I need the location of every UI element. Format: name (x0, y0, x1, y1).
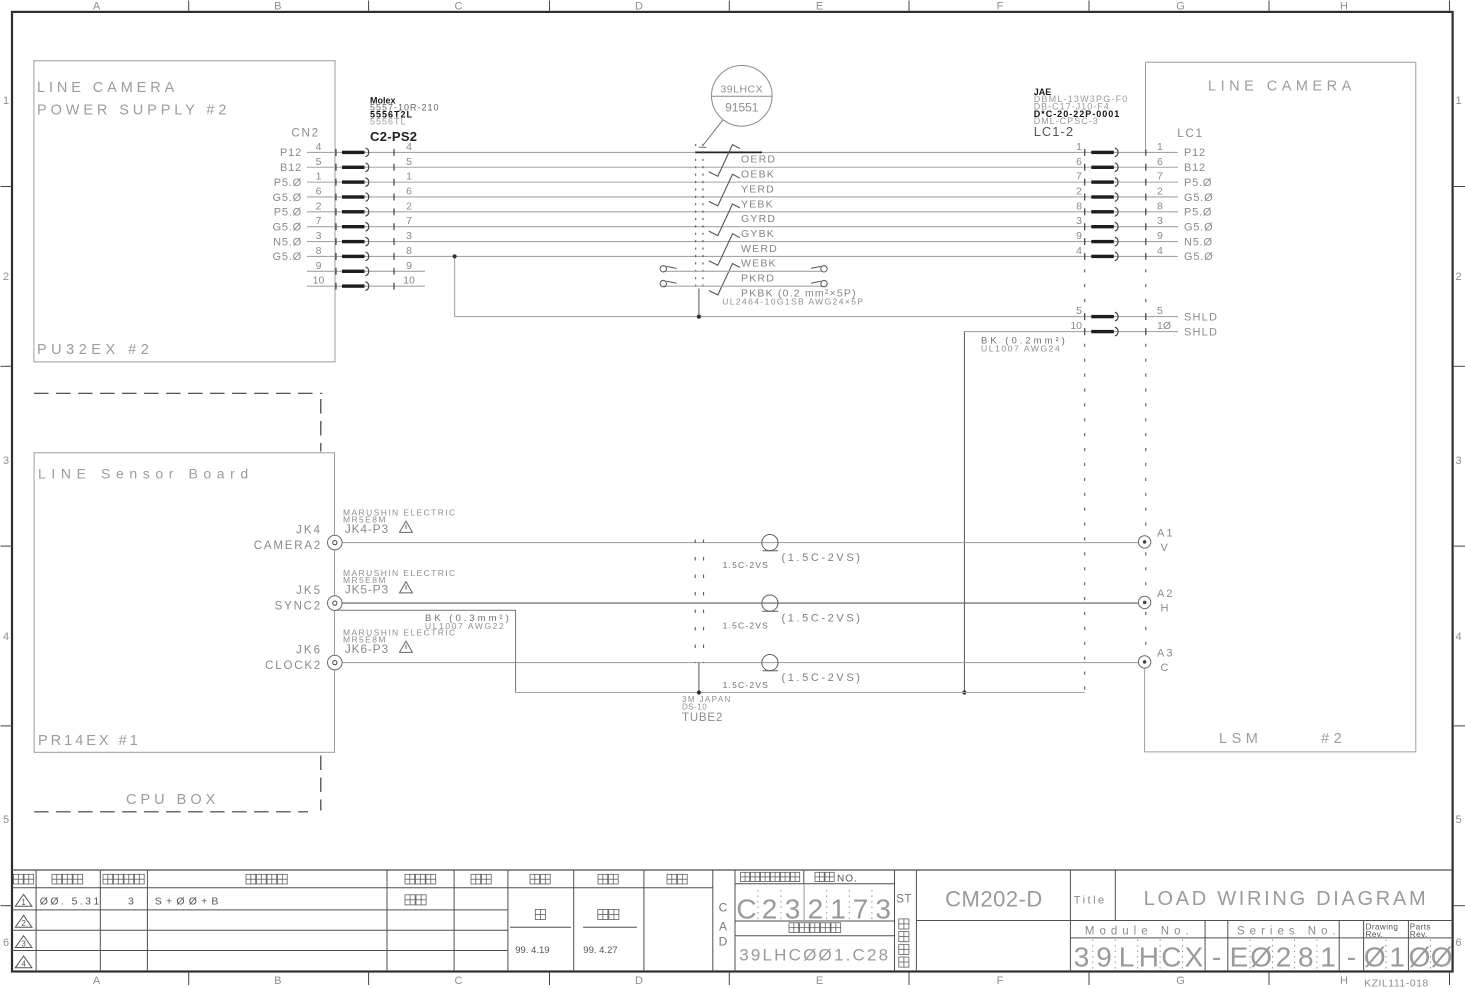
svg-text:PKRD: PKRD (741, 273, 775, 285)
svg-text:8: 8 (1076, 200, 1082, 212)
wire row 7 (CN2 pin 3) (307, 241, 1178, 243)
svg-text:LSM: LSM (1219, 731, 1262, 747)
svg-text:Ø: Ø (1409, 942, 1431, 973)
svg-text:E: E (816, 975, 823, 987)
svg-text:5556TL: 5556TL (370, 116, 407, 126)
svg-text:LINE CAMERA: LINE CAMERA (1208, 79, 1356, 95)
svg-text:A: A (719, 919, 727, 933)
svg-text:3: 3 (1076, 215, 1082, 227)
connector C2-PS2 contact row 9 (335, 268, 337, 275)
svg-text:JK4-P3: JK4-P3 (345, 522, 389, 536)
svg-text:NO.: NO. (837, 874, 858, 885)
svg-text:(1.5C-2VS): (1.5C-2VS) (782, 672, 863, 684)
terminal JK6 CLOCK2 (328, 655, 343, 670)
svg-text:PR14EX #1: PR14EX #1 (38, 733, 141, 749)
svg-text:3: 3 (3, 455, 9, 467)
right cable boundary dashed line (1084, 150, 1086, 693)
svg-text:3: 3 (128, 895, 134, 907)
svg-text:(1.5C-2VS): (1.5C-2VS) (782, 613, 863, 625)
svg-text:P5.Ø: P5.Ø (1184, 207, 1212, 219)
wire row 8 (CN2 pin 8) (307, 255, 1178, 257)
coax cable symbol on CAMERA2 (762, 535, 778, 551)
terminal JK4 CAMERA2 (328, 535, 343, 550)
warning triangle at JK4 (400, 521, 413, 532)
svg-text:2: 2 (21, 919, 26, 928)
connector C2-PS2 contact row 4 (335, 193, 337, 200)
svg-text:F: F (997, 1, 1004, 13)
svg-text:N5.Ø: N5.Ø (1184, 236, 1213, 248)
svg-text:SHLD: SHLD (1184, 326, 1218, 338)
svg-text:7: 7 (406, 215, 412, 227)
wire from CN2 pin 8 down to SHLD (454, 256, 456, 316)
svg-text:1: 1 (406, 171, 412, 183)
svg-text:D: D (719, 935, 728, 949)
svg-text:4: 4 (316, 141, 322, 153)
svg-text:1: 1 (1076, 141, 1082, 153)
svg-text:H: H (1340, 975, 1348, 987)
svg-text:A2: A2 (1157, 588, 1174, 600)
svg-text:UL1007 AWG22: UL1007 AWG22 (425, 621, 505, 631)
svg-text:#2: #2 (1321, 731, 1346, 747)
svg-text:2: 2 (762, 894, 778, 925)
svg-text:10: 10 (313, 275, 325, 287)
balloon leader line (702, 120, 723, 147)
svg-text:3: 3 (21, 939, 26, 948)
svg-text:1Ø: 1Ø (1157, 320, 1171, 332)
LC1-2 / LSM boundary dashed line (1145, 150, 1147, 662)
svg-text:P5.Ø: P5.Ø (274, 177, 302, 189)
svg-text:6: 6 (316, 185, 322, 197)
svg-text:8: 8 (1157, 200, 1163, 212)
svg-text:A: A (93, 1, 101, 13)
svg-text:ST: ST (896, 894, 912, 906)
svg-text:5: 5 (1076, 305, 1082, 317)
svg-text:B12: B12 (280, 162, 302, 174)
SHLD wire row (LC1 pin 5) (455, 316, 1178, 318)
connector LC1-2 contact row 1 (pin 1) (1084, 149, 1086, 156)
shield drain wire to SHLD (698, 289, 700, 317)
svg-text:1.5C-2VS: 1.5C-2VS (723, 620, 769, 630)
svg-text:B12: B12 (1184, 162, 1206, 174)
svg-text:GYBK: GYBK (741, 228, 775, 240)
revision triangles (15, 894, 32, 906)
svg-text:1: 1 (1320, 942, 1336, 973)
BK 0.2mm drain wire from LC1 pin 10 (963, 332, 965, 693)
svg-text:G5.Ø: G5.Ø (273, 222, 303, 234)
svg-text:Ø: Ø (1431, 942, 1453, 973)
svg-text:SYNC2: SYNC2 (275, 600, 322, 612)
svg-text:1: 1 (1455, 95, 1461, 107)
svg-text:C: C (1161, 662, 1169, 674)
connector LC1-2 contact row 6 (pin 3) (1084, 223, 1086, 230)
svg-text:H: H (1161, 603, 1169, 615)
twisted pair symbol rows 1-2 (709, 145, 740, 177)
cable callout balloon 39LHCX / 91551 (712, 66, 773, 127)
svg-text:9: 9 (1076, 230, 1082, 242)
connector LC1-2 contact row 7 (pin 9) (1084, 238, 1086, 245)
unit box LINE CAMERA / LSM #2 (1146, 61, 1416, 63)
svg-text:CAMERA2: CAMERA2 (254, 540, 322, 552)
warning triangle at JK6 (400, 641, 413, 652)
svg-text:Ø: Ø (1250, 942, 1272, 973)
wire row 4 (CN2 pin 6) (307, 196, 1178, 198)
svg-text:5: 5 (1157, 305, 1163, 317)
svg-text:Module No.: Module No. (1085, 926, 1194, 938)
connector C2-PS2 contact row 8 (335, 253, 337, 260)
coax cable symbol on CLOCK2 (762, 655, 778, 671)
svg-text:7: 7 (1157, 171, 1163, 183)
svg-text:1.5C-2VS: 1.5C-2VS (723, 680, 769, 690)
svg-text:DS-10: DS-10 (682, 702, 707, 711)
svg-text:TUBE2: TUBE2 (682, 712, 723, 724)
svg-text:3: 3 (316, 230, 322, 242)
svg-text:1: 1 (830, 894, 846, 925)
connector LC1-2 contact row 2 (pin 6) (1084, 164, 1086, 171)
svg-text:4: 4 (21, 960, 26, 969)
connector C2-PS2 contact row 2 (335, 164, 337, 171)
svg-text:G: G (1176, 975, 1185, 987)
twisted pair symbol rows 3-4 (709, 174, 740, 206)
svg-text:8: 8 (1298, 942, 1314, 973)
svg-text:7: 7 (316, 215, 322, 227)
svg-text:LC1-2: LC1-2 (1034, 124, 1074, 139)
svg-text:WEBK: WEBK (741, 258, 777, 270)
svg-text:1: 1 (3, 95, 9, 107)
connector LC1-2 contact row 5 (pin 8) (1084, 208, 1086, 215)
svg-text:CPU BOX: CPU BOX (126, 792, 219, 808)
svg-text:7: 7 (1076, 171, 1082, 183)
svg-text:Ø: Ø (1364, 942, 1386, 973)
svg-text:1: 1 (1157, 141, 1163, 153)
connector C2-PS2 contact row 5 (335, 208, 337, 215)
svg-text:KZIL111-018: KZIL111-018 (1364, 978, 1429, 988)
svg-text:8: 8 (316, 245, 322, 257)
svg-text:2: 2 (1276, 942, 1292, 973)
SHLD wire row (LC1 pin 10) (964, 331, 1178, 333)
svg-text:39LHCØØ1.C28: 39LHCØØ1.C28 (739, 946, 890, 965)
svg-text:8: 8 (406, 245, 412, 257)
svg-text:9: 9 (1157, 230, 1163, 242)
svg-text:(1.5C-2VS): (1.5C-2VS) (782, 552, 863, 564)
cable boundary dashed lines (UL2464 cable) (695, 144, 697, 290)
bold cable segment on wire row 1 (696, 151, 762, 153)
bukka code / kanri no headers (741, 872, 750, 881)
svg-text:Rev.: Rev. (1366, 930, 1384, 939)
coax cable symbol on SYNC2 (762, 595, 778, 611)
connector LC1-2 contact row 8 (pin 4) (1084, 253, 1086, 260)
connector C2-PS2 contact row 7 (335, 238, 337, 245)
svg-text:5: 5 (406, 156, 412, 168)
svg-text:UL2464-10G1SB AWG24×5P: UL2464-10G1SB AWG24×5P (722, 296, 864, 306)
svg-text:C: C (455, 975, 463, 987)
svg-text:WERD: WERD (741, 243, 778, 255)
svg-text:1: 1 (21, 898, 26, 907)
wire row 10 (CN2 pin 10) (307, 285, 425, 287)
svg-text:Rev.: Rev. (1410, 930, 1428, 939)
svg-text:P12: P12 (1184, 147, 1206, 159)
svg-text:10: 10 (1070, 320, 1082, 332)
svg-text:Series No.: Series No. (1237, 926, 1341, 938)
wire row 1 (CN2 pin 4) (307, 151, 1178, 153)
grid tick marks left/right (1, 186, 13, 188)
svg-text:LINE Sensor Board: LINE Sensor Board (38, 466, 254, 482)
ground bus wire bottom (516, 692, 1085, 694)
svg-text:2: 2 (1076, 185, 1082, 197)
TUBE2 drain to ground bus (698, 663, 700, 693)
wire row 9 (CN2 pin 9) (307, 270, 425, 272)
svg-text:6: 6 (1157, 156, 1163, 168)
svg-text:D: D (635, 1, 643, 13)
designer / checker names (535, 909, 545, 919)
svg-text:1.5C-2VS: 1.5C-2VS (723, 560, 769, 570)
svg-text:G: G (1176, 1, 1185, 13)
unit box LINE CAMERA POWER SUPPLY #2 (PU32EX #2) (34, 61, 335, 362)
svg-text:4: 4 (1157, 245, 1163, 257)
svg-text:CN2: CN2 (291, 128, 319, 140)
coax wire SYNC2 (342, 602, 1138, 604)
svg-text:H: H (1340, 1, 1348, 13)
svg-text:A3: A3 (1157, 648, 1174, 660)
svg-text:4: 4 (1455, 631, 1461, 643)
terminal JK5 SYNC2 (328, 596, 343, 611)
wire row 6 (CN2 pin 7) (307, 226, 1178, 228)
svg-text:99. 4.27: 99. 4.27 (583, 945, 617, 956)
svg-text:B: B (274, 975, 281, 987)
svg-text:GYRD: GYRD (741, 213, 776, 225)
CPU BOX dashed boundary top (34, 392, 322, 394)
svg-text:CM202-D: CM202-D (945, 887, 1043, 912)
svg-text:P12: P12 (280, 147, 302, 159)
warning triangle at JK5 (400, 582, 413, 593)
title block (12, 869, 1453, 871)
svg-text:9: 9 (406, 260, 412, 272)
svg-text:OERD: OERD (741, 154, 776, 166)
svg-text:6: 6 (406, 185, 412, 197)
junction node on row 8 (453, 254, 457, 258)
wire row 2 (CN2 pin 5) (307, 166, 1178, 168)
svg-text:6: 6 (3, 937, 9, 949)
svg-text:2: 2 (406, 200, 412, 212)
svg-text:C: C (736, 894, 756, 925)
svg-text:3: 3 (875, 894, 891, 925)
svg-text:B: B (274, 1, 281, 13)
svg-text:SHLD: SHLD (1184, 311, 1218, 323)
grid tick marks top/bottom (188, 1, 190, 12)
unit box LINE Sensor Board (PR14EX #1) (34, 453, 334, 753)
svg-text:2: 2 (3, 271, 9, 283)
svg-text:2: 2 (1455, 271, 1461, 283)
file name header (789, 923, 799, 933)
svg-text:5: 5 (3, 814, 9, 826)
svg-text:C: C (719, 901, 728, 915)
svg-text:2: 2 (808, 894, 824, 925)
dotted char separators module/series (1092, 940, 1094, 972)
coax wire CAMERA2 (342, 542, 1138, 544)
svg-text:G5.Ø: G5.Ø (1184, 192, 1214, 204)
connector C2-PS2 contact row 6 (335, 223, 337, 230)
svg-text:ØØ. 5.31: ØØ. 5.31 (40, 895, 102, 907)
twisted pair symbol rows 7-8 (709, 234, 740, 265)
coax wire CLOCK2 (342, 662, 1138, 664)
svg-text:X: X (1184, 942, 1203, 973)
terminal A3 (1138, 656, 1150, 668)
svg-text:LC1: LC1 (1177, 128, 1204, 140)
svg-text:-: - (1212, 942, 1221, 973)
title block headers (kanji) (14, 874, 24, 884)
svg-text:OEBK: OEBK (741, 169, 775, 181)
connector LC1-2 contact row 3 (pin 7) (1084, 179, 1086, 186)
svg-text:V: V (1161, 542, 1169, 554)
svg-text:5: 5 (1455, 814, 1461, 826)
svg-text:6: 6 (1455, 937, 1461, 949)
svg-text:2: 2 (316, 200, 322, 212)
connector C2-PS2 contact row 10 (335, 283, 337, 290)
svg-text:E: E (816, 1, 823, 13)
svg-text:A: A (93, 975, 101, 987)
svg-text:F: F (997, 975, 1004, 987)
svg-text:-: - (1347, 942, 1356, 973)
svg-text:G5.Ø: G5.Ø (273, 192, 303, 204)
terminal A2 (1138, 596, 1150, 608)
svg-text:5: 5 (316, 156, 322, 168)
connector C2-PS2 contact row 1 (335, 149, 337, 156)
wire row 3 (CN2 pin 1) (307, 181, 1178, 183)
svg-text:A1: A1 (1157, 528, 1174, 540)
spare wire PKBK (cut both ends) (663, 285, 822, 287)
svg-text:2: 2 (1157, 185, 1163, 197)
svg-text:G5.Ø: G5.Ø (273, 251, 303, 263)
svg-text:UL1007 AWG24: UL1007 AWG24 (981, 344, 1061, 354)
svg-text:1: 1 (316, 171, 322, 183)
svg-text:1: 1 (1389, 942, 1405, 973)
svg-text:99. 4.19: 99. 4.19 (515, 945, 549, 956)
svg-text:G5.Ø: G5.Ø (1184, 251, 1214, 263)
svg-text:D: D (635, 975, 643, 987)
svg-text:39LHCX: 39LHCX (720, 84, 763, 96)
svg-text:H: H (1139, 942, 1159, 973)
connector C2-PS2 contact row 3 (335, 179, 337, 186)
svg-text:N5.Ø: N5.Ø (273, 236, 302, 248)
svg-text:YEBK: YEBK (741, 198, 774, 210)
svg-text:L: L (1119, 942, 1135, 973)
svg-text:JK5: JK5 (296, 585, 322, 597)
svg-text:JK5-P3: JK5-P3 (345, 582, 389, 596)
svg-text:P5.Ø: P5.Ø (274, 207, 302, 219)
svg-text:4: 4 (1076, 245, 1082, 257)
svg-text:JK6: JK6 (296, 644, 322, 656)
svg-text:PU32EX #2: PU32EX #2 (37, 342, 153, 358)
svg-text:CLOCK2: CLOCK2 (265, 660, 322, 672)
svg-text:4: 4 (3, 631, 9, 643)
svg-text:9: 9 (316, 260, 322, 272)
svg-text:7: 7 (853, 894, 869, 925)
svg-text:3: 3 (1455, 455, 1461, 467)
svg-text:YERD: YERD (741, 183, 775, 195)
svg-text:G5.Ø: G5.Ø (1184, 222, 1214, 234)
BK 0.3mm wire from SYNC2 (336, 610, 516, 692)
svg-text:S+ØØ+B: S+ØØ+B (155, 895, 223, 907)
svg-text:C: C (1161, 942, 1181, 973)
svg-text:C: C (455, 1, 463, 13)
svg-text:3: 3 (1157, 215, 1163, 227)
svg-text:P5.Ø: P5.Ø (1184, 177, 1212, 189)
svg-text:4: 4 (406, 141, 412, 153)
svg-text:3: 3 (785, 894, 801, 925)
svg-text:E: E (1230, 942, 1249, 973)
CPU BOX dashed boundary bottom (34, 811, 308, 813)
svg-text:10: 10 (403, 275, 415, 287)
svg-text:LINE CAMERA: LINE CAMERA (37, 80, 178, 96)
svg-text:JK4: JK4 (296, 524, 322, 536)
connector LC1-2 contact row 4 (pin 2) (1084, 193, 1086, 200)
wire row 5 (CN2 pin 2) (307, 211, 1178, 213)
svg-text:3: 3 (1074, 942, 1090, 973)
svg-text:91551: 91551 (725, 101, 759, 115)
svg-text:JK6-P3: JK6-P3 (345, 642, 389, 656)
svg-text:POWER SUPPLY #2: POWER SUPPLY #2 (37, 103, 230, 119)
svg-text:Title: Title (1074, 894, 1107, 906)
svg-text:9: 9 (1096, 942, 1112, 973)
spare wire PKRD (cut both ends) (663, 270, 822, 272)
svg-text:6: 6 (1076, 156, 1082, 168)
TUBE2 boundary dashed lines (694, 540, 696, 664)
twisted pair symbol rows 5-6 (709, 204, 740, 236)
twisted pair symbol rows 9-10 (709, 264, 740, 296)
terminal A1 (1138, 536, 1150, 548)
svg-text:3: 3 (406, 230, 412, 242)
svg-text:LOAD WIRING DIAGRAM: LOAD WIRING DIAGRAM (1144, 888, 1429, 910)
